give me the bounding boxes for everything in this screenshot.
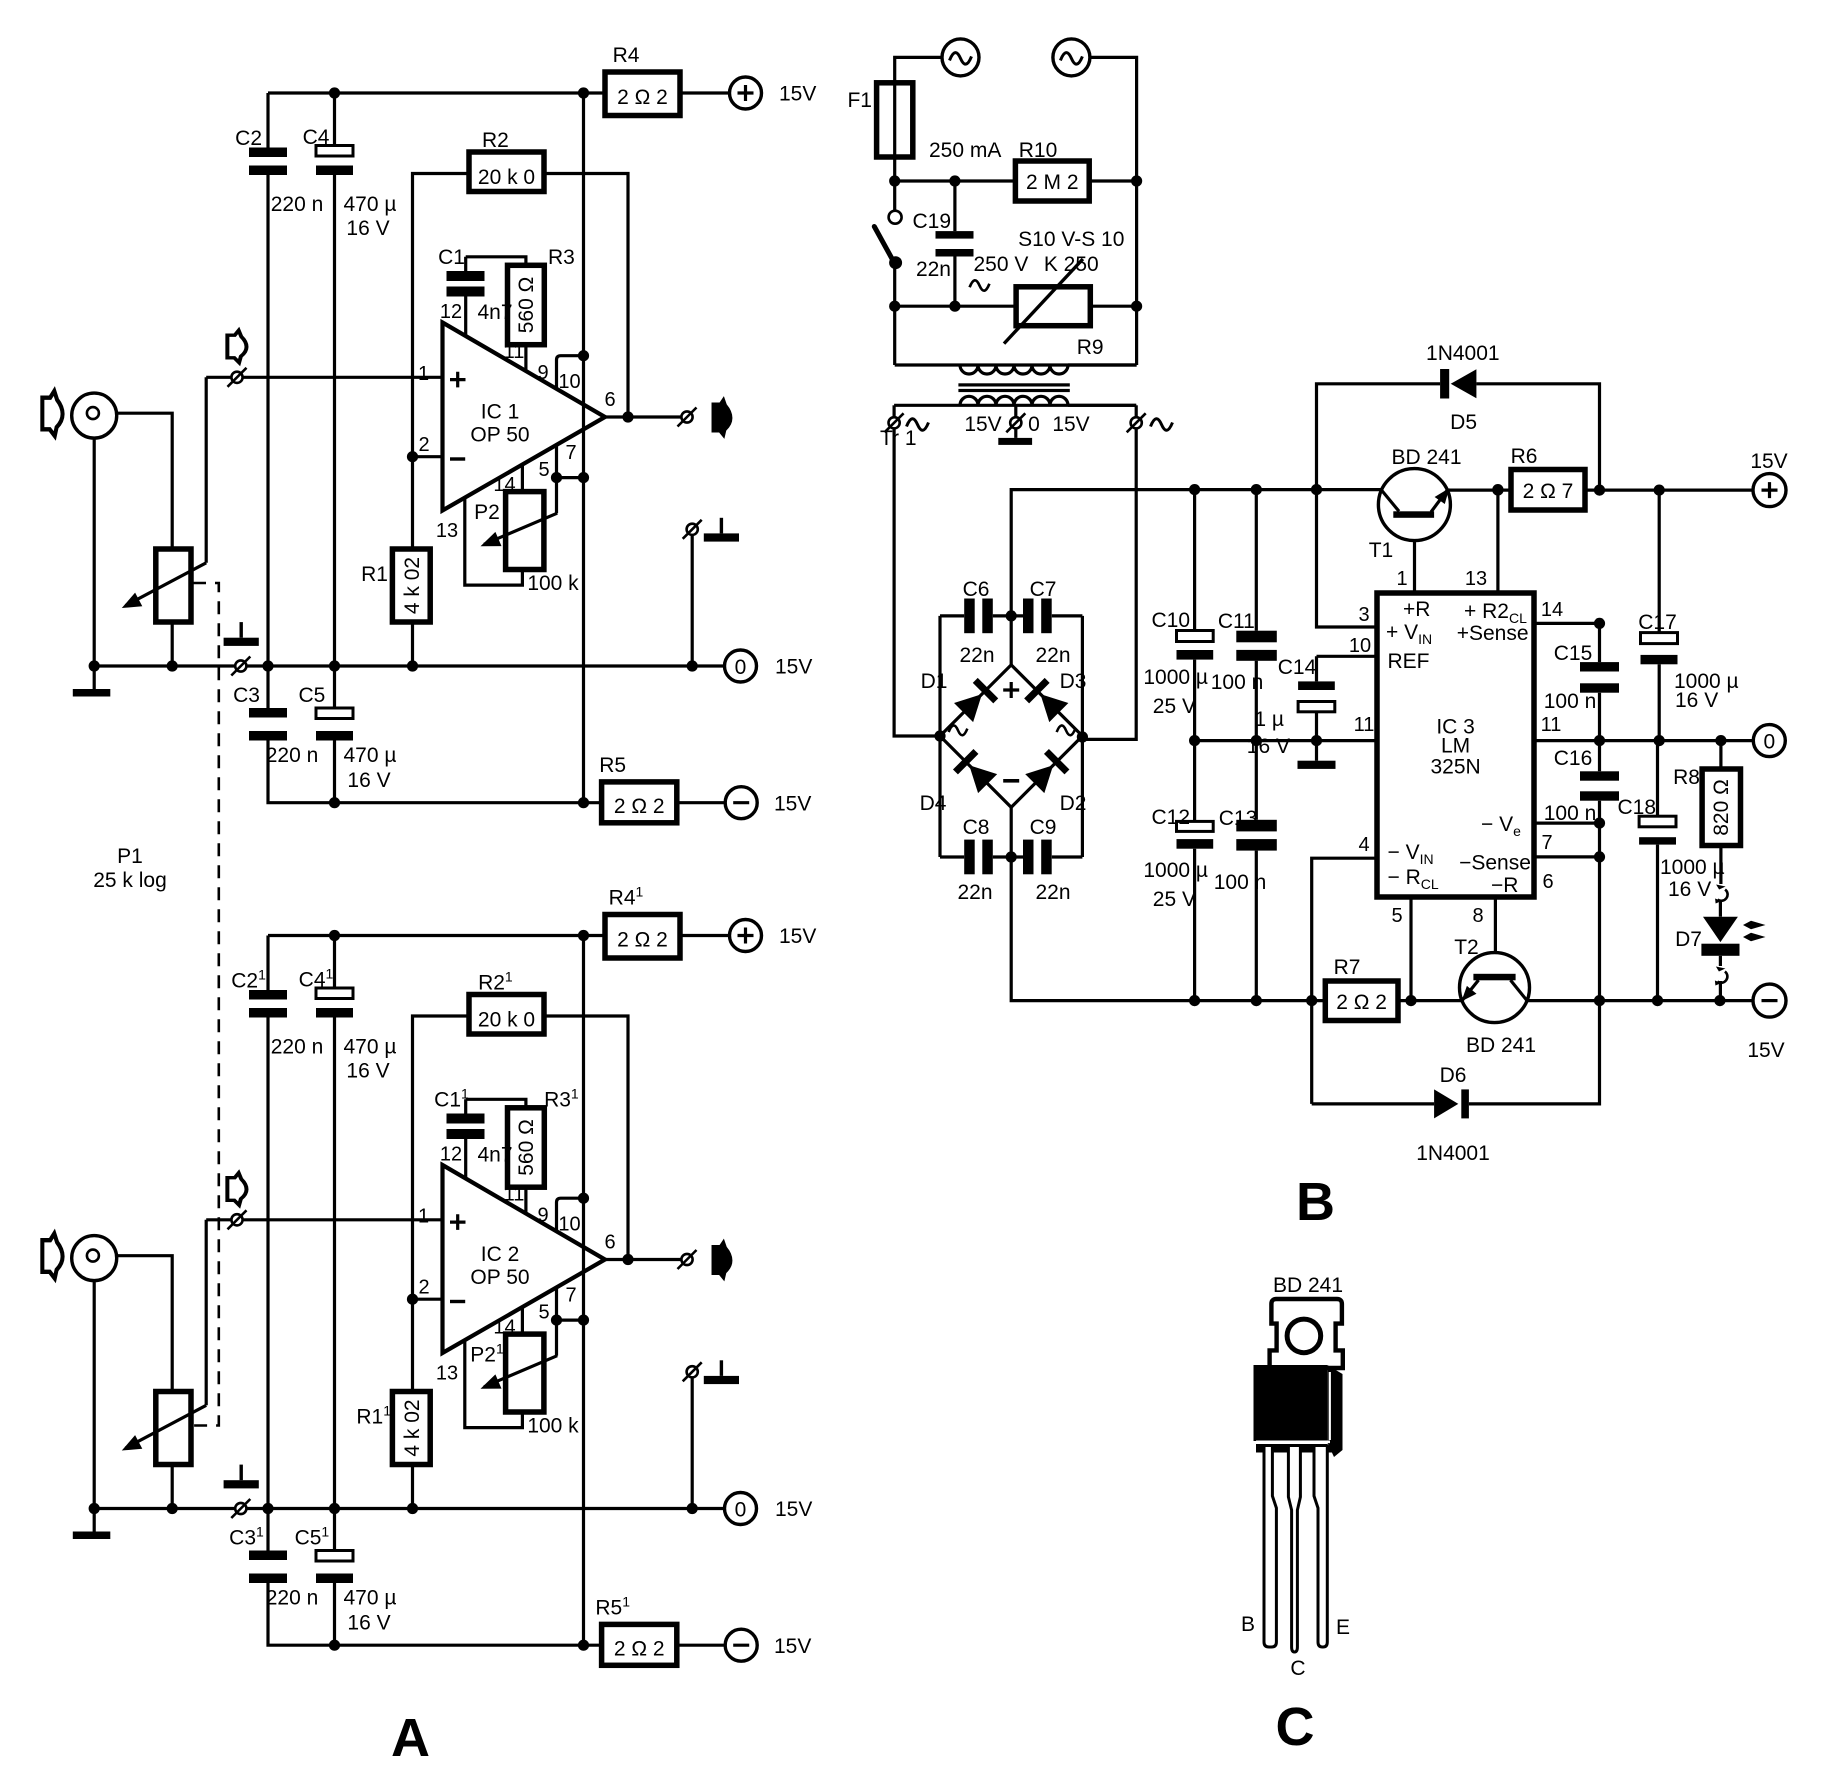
pin 1 wire — [1413, 518, 1416, 593]
wire -15V rail — [268, 741, 602, 803]
diode D1 — [953, 678, 998, 723]
svg-text:100 k: 100 k — [527, 572, 579, 595]
terminal -15V — [725, 787, 757, 819]
svg-text:C: C — [1276, 1697, 1315, 1757]
svg-text:C6: C6 — [963, 578, 990, 601]
transformer Tr1 primary — [895, 363, 1137, 366]
svg-text:4 k 02: 4 k 02 — [401, 557, 424, 614]
svg-text:5: 5 — [538, 459, 549, 481]
svg-text:100 n: 100 n — [1214, 871, 1267, 894]
svg-text:100 n: 100 n — [1211, 671, 1264, 694]
svg-text:16 V: 16 V — [1247, 735, 1290, 758]
svg-text:D3: D3 — [1060, 670, 1087, 693]
svg-text:25 V: 25 V — [1153, 695, 1196, 718]
pin 3 wire — [1317, 490, 1378, 627]
svg-text:0: 0 — [1763, 731, 1775, 754]
svg-text:R2: R2 — [482, 129, 509, 152]
svg-text:2 Ω 2: 2 Ω 2 — [617, 86, 668, 109]
transistor package tab — [1270, 1299, 1343, 1368]
fuse F1 (250mA) — [877, 83, 913, 157]
pin 11 right wire — [1534, 739, 1755, 742]
svg-text:11: 11 — [504, 341, 525, 363]
svg-text:OP 50: OP 50 — [470, 424, 529, 447]
svg-text:R6: R6 — [1511, 445, 1538, 468]
svg-text:D6: D6 — [1440, 1064, 1467, 1087]
resistor R6 (2R7) — [1511, 470, 1585, 511]
svg-text:D7: D7 — [1675, 928, 1702, 951]
resistor R10 (2M2) — [1015, 161, 1089, 201]
svg-text:14: 14 — [493, 474, 515, 496]
wire T2 to -15V terminal — [1527, 999, 1753, 1002]
svg-text:1000 µ: 1000 µ — [1660, 856, 1725, 879]
svg-text:−Sense: −Sense — [1459, 852, 1531, 875]
svg-text:C13: C13 — [1219, 807, 1258, 830]
svg-text:R4: R4 — [613, 44, 640, 67]
capacitor C6 (22n) — [940, 614, 1011, 617]
wire F1 to switch — [893, 157, 896, 211]
capacitor C16 (100n) — [1580, 771, 1619, 780]
junction dot C19 top — [949, 175, 960, 186]
junction dot bridge right corner — [1077, 731, 1088, 742]
diode D4 — [953, 749, 998, 794]
wire to R10 — [895, 179, 1016, 182]
varistor R9 (S10 V-S10 K250) — [1016, 287, 1090, 326]
plug connector D7 bottom — [1719, 956, 1722, 966]
potentiometer P1 gang — [156, 549, 191, 622]
svg-text:22n: 22n — [957, 881, 992, 904]
svg-text:1N4001: 1N4001 — [1426, 342, 1500, 365]
capacitor C17 (1000u 16V) — [1658, 490, 1661, 740]
svg-text:1: 1 — [418, 363, 429, 385]
wire V rail vertical — [582, 93, 585, 803]
junction dot V+ vertical/top rail — [578, 87, 589, 98]
capacitor C10 (1000u 25V) — [1193, 490, 1196, 741]
wire to R9 — [895, 305, 1016, 308]
capacitor C11 (100n) — [1255, 490, 1258, 741]
svg-text:+Sense: +Sense — [1457, 622, 1529, 645]
svg-text:11: 11 — [1354, 714, 1375, 736]
bridge polarity marks — [1003, 682, 1019, 698]
wire bridge + to raw rail — [1011, 490, 1382, 665]
transistor leg C — [1288, 1447, 1300, 1652]
svg-text:12: 12 — [440, 301, 462, 323]
svg-text:C11: C11 — [434, 1086, 469, 1112]
transistor T1 BD241 — [1378, 469, 1450, 541]
svg-text:S10 V-S 10: S10 V-S 10 — [1018, 228, 1124, 251]
svg-text:C: C — [1290, 1657, 1305, 1680]
svg-text:0: 0 — [1028, 413, 1040, 436]
connector secondary left — [892, 405, 895, 417]
pin 14 wire — [1534, 622, 1600, 625]
wire 0V rail — [94, 664, 724, 667]
svg-text:1N4001: 1N4001 — [1416, 1142, 1490, 1165]
transformer Tr1 secondary — [894, 404, 1136, 407]
svg-text:14: 14 — [1541, 599, 1563, 621]
svg-text:220 n: 220 n — [266, 744, 319, 767]
plug connector D7 top — [1715, 885, 1727, 904]
pin 5 wire — [1409, 897, 1412, 1001]
terminal mains AC right — [1053, 39, 1090, 76]
resistor R2 (20k0) — [469, 152, 544, 192]
svg-text:R9: R9 — [1077, 336, 1104, 359]
transistor leg B — [1264, 1447, 1276, 1647]
svg-text:15V: 15V — [774, 793, 811, 816]
svg-text:R5: R5 — [599, 754, 626, 777]
svg-text:C17: C17 — [1638, 611, 1677, 634]
wire R6 to +15V terminal — [1585, 489, 1754, 492]
svg-text:10: 10 — [558, 371, 580, 393]
connector input signal — [228, 368, 247, 387]
svg-text:C11: C11 — [1218, 610, 1255, 633]
junction dots on 0V rail — [262, 660, 273, 671]
wire secondary left to bridge — [894, 428, 940, 736]
svg-text:15V: 15V — [1052, 413, 1089, 436]
wire AC right vertical — [1090, 57, 1137, 365]
svg-text:25 k log: 25 k log — [93, 869, 167, 892]
svg-text:IC 2: IC 2 — [481, 1243, 520, 1266]
svg-text:16 V: 16 V — [1668, 878, 1711, 901]
wire C1-R3 top link — [466, 257, 526, 266]
junction dot bridge left corner — [934, 730, 945, 741]
junction dot C6/C7 — [1006, 610, 1017, 621]
wire R8 to D7 — [1719, 846, 1722, 885]
wire R2 left to node pin2/R1 — [413, 174, 470, 550]
wire output ground to 0 rail — [691, 535, 694, 666]
wire jack to P1 top — [99, 413, 172, 549]
svg-text:K 250: K 250 — [1044, 253, 1099, 276]
wire 0V mid rail — [1195, 739, 1377, 742]
capacitor C8 (22n) — [940, 855, 1011, 858]
capacitor C2 (220n) — [266, 93, 269, 666]
transistor package hole — [1287, 1319, 1321, 1353]
svg-text:8: 8 — [1472, 905, 1483, 927]
svg-text:10: 10 — [1349, 635, 1371, 657]
svg-text:BD 241: BD 241 — [1466, 1034, 1536, 1057]
svg-text:250 V: 250 V — [974, 253, 1029, 276]
wire +15V top rail — [268, 91, 605, 94]
svg-text:D2: D2 — [1060, 792, 1087, 815]
svg-text:C51: C51 — [295, 1524, 330, 1550]
svg-text:2 Ω 7: 2 Ω 7 — [1523, 480, 1574, 503]
connector secondary right — [1135, 405, 1138, 417]
resistor R7 (2R2) — [1325, 981, 1398, 1021]
wire R10 right — [1089, 179, 1136, 182]
svg-text:C8: C8 — [963, 816, 990, 839]
arrow output signal — [712, 396, 733, 439]
svg-text:4: 4 — [1358, 834, 1369, 856]
svg-text:C15: C15 — [1554, 642, 1593, 665]
resistor R5 (2R2) — [602, 782, 677, 823]
svg-text:13: 13 — [1465, 568, 1487, 590]
svg-text:470 µ: 470 µ — [344, 193, 397, 216]
wire R5 to -15V terminal — [677, 801, 725, 804]
wire pin5 stub / wiper riser — [555, 446, 558, 513]
wire raw rail to R6 — [1447, 489, 1511, 492]
capacitor C3 (220n) — [266, 666, 269, 708]
svg-text:2: 2 — [418, 434, 429, 456]
svg-text:11: 11 — [1541, 714, 1562, 736]
svg-text:D4: D4 — [920, 792, 947, 815]
chassis ground symbol output — [704, 518, 739, 542]
svg-text:C9: C9 — [1030, 816, 1057, 839]
svg-text:820 Ω: 820 Ω — [1710, 779, 1733, 836]
svg-text:R21: R21 — [478, 969, 513, 995]
svg-text:2 Ω 2: 2 Ω 2 — [614, 795, 665, 818]
wire jack sleeve to 0 rail — [93, 438, 96, 666]
capacitor C18 (1000u 16V) — [1656, 741, 1659, 1001]
svg-text:1000 µ: 1000 µ — [1143, 666, 1208, 689]
transistor T2 BD241 — [1460, 953, 1530, 1023]
svg-text:15V: 15V — [1747, 1039, 1784, 1062]
svg-text:C4: C4 — [303, 126, 330, 149]
terminal -15V out — [1753, 984, 1786, 1017]
svg-text:22n: 22n — [916, 258, 951, 281]
svg-text:25 V: 25 V — [1153, 888, 1196, 911]
svg-text:C2: C2 — [235, 127, 262, 150]
LED D7 — [1719, 900, 1722, 917]
svg-text:C3: C3 — [233, 684, 260, 707]
terminal +15V — [730, 77, 762, 109]
capacitor C13 (100n) — [1255, 741, 1258, 1001]
connector output ground — [683, 520, 702, 539]
junction dot F1/R10 — [889, 175, 900, 186]
svg-text:R11: R11 — [356, 1403, 391, 1429]
svg-text:C12: C12 — [1151, 806, 1190, 829]
wire switch to primary — [893, 263, 896, 365]
svg-text:9: 9 — [537, 362, 548, 384]
svg-text:P21: P21 — [470, 1341, 504, 1367]
junction dots -15V rail — [329, 797, 340, 808]
capacitor C7 (22n) — [1011, 614, 1082, 617]
arrow input signal — [227, 330, 246, 362]
junction dot C4/top rail — [329, 87, 340, 98]
svg-text:R10: R10 — [1019, 139, 1058, 162]
connector output signal — [678, 408, 697, 427]
junction dot switch/R9 — [889, 301, 900, 312]
svg-text:R51: R51 — [595, 1594, 630, 1620]
svg-text:R8: R8 — [1673, 766, 1700, 789]
pin 7 wire — [1534, 855, 1600, 858]
svg-text:C5: C5 — [298, 684, 325, 707]
switch S contact — [889, 211, 902, 224]
svg-text:BD 241: BD 241 — [1273, 1274, 1343, 1297]
svg-text:R41: R41 — [609, 884, 644, 910]
svg-text:A: A — [391, 1708, 430, 1768]
svg-text:R31: R31 — [544, 1086, 579, 1112]
junction dot C8/C9 — [1006, 851, 1017, 862]
wire pins 5/7 bracket — [557, 476, 584, 479]
svg-text:REF: REF — [1388, 650, 1430, 673]
pin 13 wire — [1496, 490, 1499, 593]
svg-text:−R: −R — [1491, 874, 1518, 897]
svg-text:P2: P2 — [474, 501, 500, 524]
svg-text:4n7: 4n7 — [477, 301, 512, 324]
svg-text:D1: D1 — [921, 670, 948, 693]
svg-text:2 M 2: 2 M 2 — [1026, 171, 1079, 194]
capacitor C9 (22n) — [1011, 855, 1082, 858]
svg-text:15V: 15V — [1750, 450, 1787, 473]
svg-text:16 V: 16 V — [346, 217, 389, 240]
diode D6 1N4001 — [1312, 1001, 1600, 1104]
wire secondary right to bridge — [1082, 428, 1136, 739]
svg-text:0: 0 — [735, 656, 747, 679]
svg-text:C16: C16 — [1554, 747, 1593, 770]
svg-text:15V: 15V — [775, 656, 812, 679]
junction dot pin2 — [407, 451, 418, 462]
svg-text:C31: C31 — [229, 1524, 264, 1550]
switch S lever — [874, 227, 893, 261]
svg-text:T2: T2 — [1454, 936, 1479, 959]
chassis ground symbol input — [224, 622, 259, 646]
svg-text:IC 1: IC 1 — [481, 401, 520, 424]
resistor R3 (560R) — [508, 265, 545, 344]
svg-text:P1: P1 — [117, 845, 143, 868]
capacitor C1 (4n7) — [464, 257, 467, 338]
svg-text:7: 7 — [1541, 832, 1552, 854]
svg-text:C21: C21 — [231, 967, 266, 993]
arrow at input jack — [42, 391, 62, 436]
capacitor C12 (1000u 25V) — [1193, 741, 1196, 1001]
IC3 regulator LM325N — [1377, 593, 1534, 897]
ground C14 — [1298, 761, 1336, 769]
svg-text:16 V: 16 V — [347, 769, 390, 792]
op-amp IC1 triangle — [443, 323, 606, 511]
svg-text:250 mA: 250 mA — [929, 139, 1001, 162]
svg-text:R1: R1 — [361, 563, 388, 586]
svg-text:2 Ω 2: 2 Ω 2 — [1336, 991, 1387, 1014]
svg-text:1000 µ: 1000 µ — [1143, 859, 1208, 882]
svg-text:B: B — [1296, 1172, 1335, 1232]
svg-text:7: 7 — [565, 442, 576, 464]
svg-text:560 Ω: 560 Ω — [515, 277, 538, 334]
svg-text:22n: 22n — [1035, 881, 1070, 904]
connector secondary centre tap — [1014, 405, 1017, 417]
svg-text:220 n: 220 n — [271, 193, 324, 216]
bridge surround square right — [1081, 616, 1084, 857]
wire output pin6 — [605, 415, 682, 418]
capacitor C4 (470u) — [333, 93, 336, 666]
transistor package body — [1254, 1365, 1328, 1441]
pin -Ve wire — [1534, 821, 1600, 824]
capacitor C14 (1u 16V) — [1315, 656, 1318, 760]
svg-text:100 n: 100 n — [1544, 802, 1597, 825]
junction dot jack/0 rail — [89, 660, 100, 671]
terminal 0V — [725, 650, 757, 682]
connector input ground — [231, 657, 250, 676]
svg-text:D5: D5 — [1450, 411, 1477, 434]
terminal 0V out — [1753, 725, 1785, 757]
wire P2 bottom to pin13 — [465, 498, 523, 585]
bridge diamond — [940, 665, 1082, 807]
svg-text:22n: 22n — [1035, 644, 1070, 667]
svg-text:15V: 15V — [779, 83, 816, 106]
wire R9 right — [1090, 305, 1136, 308]
wire R2 right feedback to output — [544, 174, 628, 418]
wire P1 wiper riser to pin1 — [205, 377, 208, 563]
svg-text:6: 6 — [604, 389, 615, 411]
svg-text:1 µ: 1 µ — [1254, 708, 1284, 731]
svg-text:+R: +R — [1403, 598, 1430, 621]
phono input jack — [72, 393, 117, 438]
ground centre tap — [1014, 428, 1017, 438]
wire AC left to F1 — [895, 57, 942, 82]
svg-text:1: 1 — [1396, 568, 1407, 590]
wire inverting input pin2 — [413, 455, 444, 458]
transistor leg E — [1314, 1447, 1327, 1647]
junction dot R10/right vertical — [1131, 175, 1142, 186]
potentiometer P1 gang link (dashed) — [193, 583, 219, 1426]
svg-text:R7: R7 — [1334, 956, 1361, 979]
svg-text:B: B — [1241, 1613, 1255, 1636]
junction dot P1/0 rail — [167, 660, 178, 671]
wire pins 9/10 bracket — [557, 356, 584, 389]
svg-text:C14: C14 — [1278, 656, 1317, 679]
svg-text:C10: C10 — [1151, 609, 1190, 632]
terminal +15V out — [1753, 474, 1786, 507]
diode D2 — [1025, 749, 1070, 794]
wire P1 bottom to 0 rail — [171, 622, 174, 666]
svg-text:R3: R3 — [548, 246, 575, 269]
svg-text:15V: 15V — [964, 413, 1001, 436]
pin 8 wire — [1494, 897, 1497, 974]
diode D3 — [1024, 678, 1069, 723]
svg-text:3: 3 — [1358, 604, 1369, 626]
wire pin14 stub — [521, 464, 524, 492]
svg-text:LM: LM — [1441, 735, 1470, 758]
svg-text:20 k 0: 20 k 0 — [478, 166, 535, 189]
pin 4 wire — [1312, 858, 1377, 1104]
wire non-inverting input pin1 — [206, 376, 443, 379]
diode D5 1N4001 — [1317, 384, 1600, 490]
capacitor C5 (470u) — [333, 666, 336, 803]
pin 10 wire REF — [1317, 655, 1378, 658]
wire R3 bottom to pin11 — [524, 345, 527, 373]
svg-text:470 µ: 470 µ — [344, 744, 397, 767]
ground at input jack — [93, 666, 96, 689]
capacitor C19 (22n) — [953, 181, 956, 306]
svg-text:C18: C18 — [1617, 796, 1656, 819]
svg-text:13: 13 — [436, 520, 458, 542]
svg-text:BD 241: BD 241 — [1391, 446, 1461, 469]
svg-text:100 n: 100 n — [1544, 690, 1597, 713]
junction dot output/feedback — [622, 411, 633, 422]
svg-text:C7: C7 — [1030, 578, 1057, 601]
capacitor C15 (100n) — [1598, 623, 1601, 771]
svg-text:C19: C19 — [912, 210, 951, 233]
bridge surround square left — [938, 616, 941, 857]
svg-text:16 V: 16 V — [1675, 689, 1718, 712]
channel 2 duplicate graphics — [42, 915, 816, 1666]
resistor R4 (2R2) — [605, 72, 680, 116]
svg-text:T1: T1 — [1369, 539, 1394, 562]
transformer Tr1 core — [958, 383, 1069, 386]
svg-text:22n: 22n — [959, 644, 994, 667]
svg-text:E: E — [1336, 1616, 1350, 1639]
wire R7 to T2 — [1398, 999, 1463, 1002]
svg-text:F1: F1 — [847, 89, 872, 112]
svg-text:325N: 325N — [1430, 756, 1480, 779]
wire bridge - down — [1011, 807, 1325, 1000]
svg-text:5: 5 — [1391, 905, 1402, 927]
LED light arrows — [1743, 921, 1766, 930]
wire R4 to +15V terminal — [680, 91, 730, 94]
terminal mains AC left — [942, 39, 979, 76]
potentiometer P2 (100k) — [506, 492, 544, 570]
junction dot R1/0 rail — [407, 660, 418, 671]
junction dots bracket 5/7 — [551, 472, 562, 483]
svg-text:6: 6 — [1542, 871, 1553, 893]
resistor R1 (4k02) — [392, 549, 430, 622]
